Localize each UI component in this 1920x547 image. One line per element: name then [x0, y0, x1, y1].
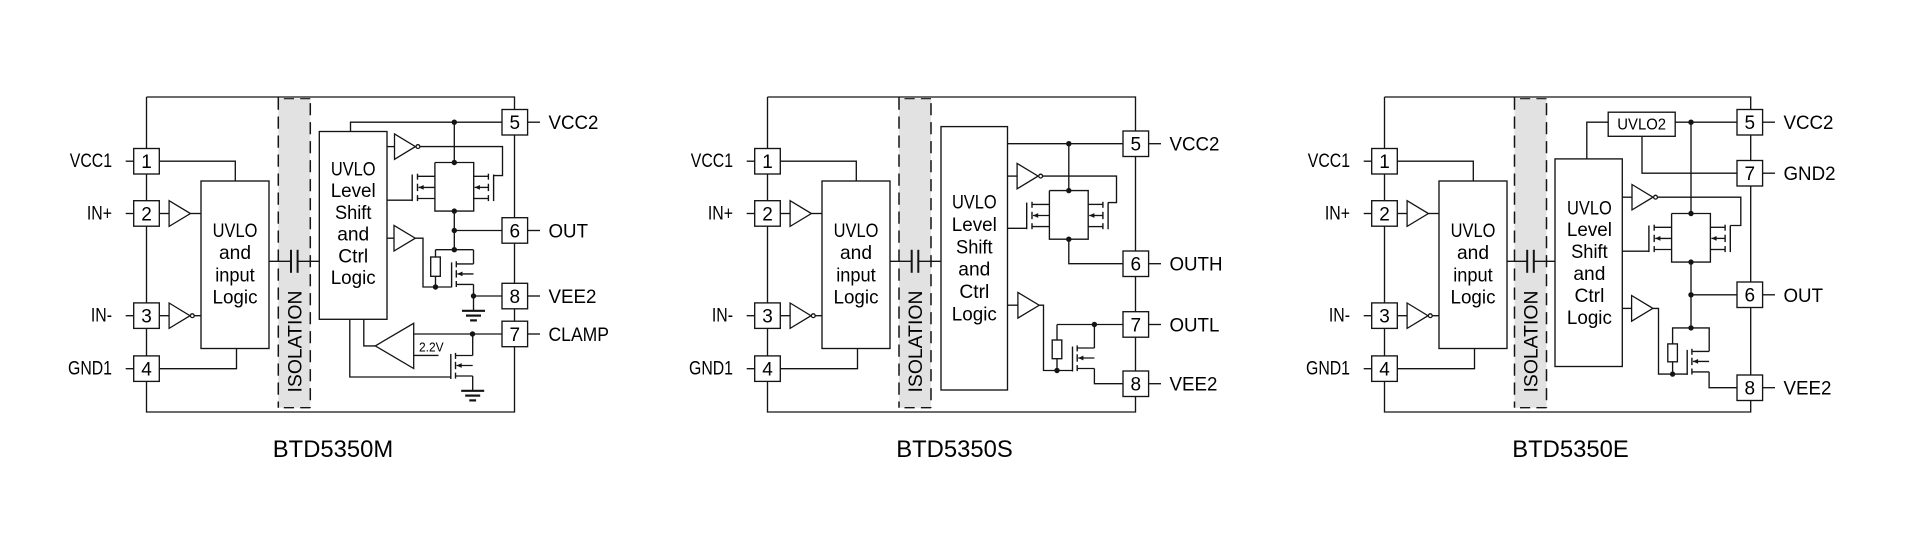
pin 1 label VCC1: [1308, 151, 1350, 172]
svg-text:and: and: [1457, 243, 1489, 264]
isolation capacitor C2: [890, 250, 941, 273]
output MOS pair Q8 Q9: [1649, 211, 1730, 265]
pin 5 label VCC2: [1170, 135, 1220, 156]
svg-text:and: and: [958, 260, 990, 281]
pin 2 label IN+: [708, 203, 733, 224]
inverter driving high-side gate: [1622, 185, 1657, 210]
svg-text:UVLO: UVLO: [952, 193, 997, 214]
svg-text:1: 1: [141, 152, 152, 173]
wire OUTL node to pin 7: [1057, 322, 1123, 327]
svg-text:3: 3: [141, 307, 152, 328]
svg-text:and: and: [219, 243, 251, 264]
svg-text:6: 6: [1131, 255, 1142, 276]
low-side transistor Q7: [1073, 325, 1124, 384]
svg-text:input: input: [836, 265, 876, 286]
svg-text:8: 8: [1745, 379, 1756, 400]
wire level-shift block to low-side gate: [1008, 227, 1027, 229]
svg-text:3: 3: [762, 307, 773, 328]
pin 4 box: [126, 356, 160, 382]
svg-text:2.2V: 2.2V: [419, 340, 444, 355]
svg-text:and: and: [337, 225, 369, 246]
pin 6 label OUT: [1784, 286, 1824, 307]
svg-text:Level: Level: [1567, 220, 1612, 241]
node VCC2 junction: [452, 120, 457, 163]
node pulldown junction: [1688, 295, 1693, 331]
svg-text:4: 4: [762, 360, 773, 381]
UVLO Level Shift and Ctrl Logic block: [941, 127, 1008, 390]
resistor R3: [1668, 328, 1691, 377]
node pulldown rail: [436, 247, 474, 252]
pin 1 box: [126, 149, 160, 175]
pin 4 label GND1: [1306, 359, 1350, 380]
UVLO Level Shift and Ctrl Logic block: [1555, 159, 1622, 367]
input buffer at pin 2: [780, 201, 822, 227]
pin 3 box: [126, 303, 160, 329]
UVLO and input Logic block: [201, 181, 269, 349]
svg-text:7: 7: [1745, 164, 1756, 185]
UVLO and input Logic block: [1439, 181, 1507, 349]
pin 3 box: [747, 303, 781, 329]
pin 5 box: [1123, 131, 1161, 157]
svg-text:UVLO2: UVLO2: [1617, 117, 1666, 134]
svg-text:2: 2: [141, 204, 152, 225]
pin 5 label VCC2: [1784, 113, 1834, 134]
inverter driving high-side gate: [387, 134, 420, 159]
pin 8 label VEE2: [549, 287, 597, 308]
input inverter at pin 3: [159, 303, 201, 328]
svg-text:Logic: Logic: [1451, 288, 1496, 309]
svg-text:Ctrl: Ctrl: [959, 282, 989, 303]
pin 2 label IN+: [1325, 203, 1350, 224]
svg-text:5: 5: [1131, 135, 1142, 156]
pin 8 label VEE2: [1784, 379, 1832, 400]
pin 2 label IN+: [87, 203, 112, 224]
svg-text:4: 4: [1379, 360, 1390, 381]
svg-text:8: 8: [1131, 375, 1142, 396]
node VCC2 junction: [1688, 120, 1693, 214]
buffer driving pulldown: [387, 225, 452, 287]
svg-text:ISOLATION: ISOLATION: [1522, 291, 1543, 393]
svg-text:ISOLATION: ISOLATION: [906, 291, 927, 393]
pin 1 label VCC1: [70, 151, 112, 172]
wire UVLO2 to ctrl block: [1587, 122, 1608, 159]
wire comparator input to pin 7 CLAMP: [414, 331, 502, 336]
svg-text:VCC1: VCC1: [70, 151, 112, 172]
wire UVLO2 to pin 7 GND2: [1642, 136, 1737, 173]
svg-text:and: and: [840, 243, 872, 264]
pin 4 box: [747, 356, 781, 382]
pin 7 box: [502, 321, 540, 347]
pin 3 label IN-: [712, 306, 733, 327]
wire inverter to high-side gate: [1658, 197, 1741, 225]
pin 3 label IN-: [1329, 306, 1350, 327]
input buffer at pin 2: [159, 201, 201, 227]
svg-text:and: and: [1573, 264, 1605, 285]
svg-text:Ctrl: Ctrl: [1574, 286, 1604, 307]
svg-text:GND1: GND1: [1306, 359, 1350, 380]
svg-text:ISOLATION: ISOLATION: [285, 291, 306, 393]
package outline BTD5350S: [768, 97, 1136, 412]
wire level-shift block to low-side gate: [1622, 250, 1649, 252]
isolation capacitor C3: [1507, 250, 1555, 273]
wire VCC2 rail to pin 5: [1675, 121, 1737, 123]
package outline BTD5350E: [1385, 97, 1751, 412]
svg-text:VCC2: VCC2: [1784, 113, 1834, 134]
wire pin1 to UVLO block top: [780, 161, 856, 181]
clamp transistor Q4: [451, 334, 473, 391]
wire ctrl block to clamp gate: [350, 319, 451, 377]
node VCC2 junction: [1066, 141, 1071, 191]
svg-text:IN-: IN-: [1329, 306, 1350, 327]
svg-text:input: input: [215, 265, 255, 286]
svg-text:UVLO: UVLO: [331, 160, 376, 181]
pin 8 box: [502, 283, 540, 309]
pin 8 box: [1737, 375, 1775, 401]
svg-text:5: 5: [510, 113, 521, 134]
pin 6 label OUT: [549, 222, 589, 243]
ground at clamp: [461, 391, 484, 401]
svg-text:BTD5350E: BTD5350E: [1512, 436, 1629, 463]
svg-text:Level: Level: [952, 215, 997, 236]
pin 2 box: [747, 201, 781, 227]
svg-text:VCC2: VCC2: [1170, 135, 1220, 156]
svg-text:BTD5350S: BTD5350S: [896, 436, 1013, 463]
isolation barrier band: [899, 98, 931, 408]
pin 1 box: [747, 149, 781, 175]
svg-text:OUT: OUT: [1784, 286, 1824, 307]
pin 5 box: [502, 110, 540, 136]
pin 4 label GND1: [68, 359, 112, 380]
svg-text:2: 2: [1379, 204, 1390, 225]
svg-text:Ctrl: Ctrl: [338, 246, 368, 267]
svg-text:VCC1: VCC1: [691, 151, 733, 172]
pin 5 label VCC2: [549, 113, 599, 134]
wire output node to pin 6 OUT: [452, 211, 502, 250]
ISOLATION label: [906, 291, 927, 393]
2.2V reference: [414, 340, 444, 356]
pin 5 box: [1737, 110, 1775, 136]
output MOS pair Q1 Q2: [412, 160, 493, 214]
pin 1 box: [1364, 149, 1398, 175]
wire VCC2 rail to pin 5: [1008, 143, 1124, 145]
input buffer at pin 2: [1397, 201, 1439, 227]
isolation capacitor C1: [269, 250, 319, 273]
wire pin4 to UVLO block bottom: [1397, 349, 1474, 369]
pin 8 label VEE2: [1170, 375, 1218, 396]
svg-text:7: 7: [510, 325, 521, 346]
svg-text:IN-: IN-: [91, 306, 112, 327]
svg-text:UVLO: UVLO: [213, 221, 258, 242]
pulldown transistor Q3: [452, 250, 474, 296]
ISOLATION label: [1522, 291, 1543, 393]
pin 6 label OUTH: [1170, 255, 1223, 276]
svg-text:5: 5: [1745, 113, 1756, 134]
node VEE2 junction: [471, 293, 502, 298]
buffer driving low-side output: [1008, 292, 1073, 370]
caption BTD5350M: [273, 436, 393, 463]
wire pin1 to UVLO block top: [1397, 161, 1473, 181]
resistor R2: [1052, 325, 1062, 374]
svg-text:UVLO: UVLO: [1567, 198, 1612, 219]
pin 7 label OUTL: [1170, 316, 1220, 337]
svg-text:UVLO: UVLO: [834, 221, 879, 242]
pin 6 box: [1737, 282, 1775, 308]
pin 1 label VCC1: [691, 151, 733, 172]
package outline BTD5350M: [147, 97, 515, 412]
svg-text:VCC1: VCC1: [1308, 151, 1350, 172]
svg-text:VCC2: VCC2: [549, 113, 599, 134]
pin 3 box: [1364, 303, 1398, 329]
svg-text:VEE2: VEE2: [549, 287, 597, 308]
svg-text:OUT: OUT: [549, 222, 589, 243]
svg-text:1: 1: [1379, 152, 1390, 173]
svg-text:6: 6: [1745, 286, 1756, 307]
isolation barrier band: [278, 98, 310, 408]
wire level-shift block to low-side gate: [387, 199, 412, 201]
output MOS pair Q5 Q6: [1027, 188, 1108, 242]
wire inverter to high-side gate: [420, 147, 503, 176]
svg-text:input: input: [1453, 265, 1493, 286]
pulldown transistor Q10: [1687, 328, 1737, 388]
wire output node to pin 6 OUT: [1688, 262, 1737, 297]
svg-text:UVLO: UVLO: [1451, 221, 1496, 242]
wire inverter to high-side gate: [1043, 176, 1117, 203]
pin 8 box: [1123, 371, 1161, 397]
pin 7 box: [1737, 161, 1775, 187]
clamp comparator 2.2V: [364, 319, 414, 368]
svg-text:OUTH: OUTH: [1170, 255, 1223, 276]
svg-text:Level: Level: [331, 181, 376, 202]
caption BTD5350E: [1512, 436, 1629, 463]
buffer driving pulldown: [1622, 296, 1687, 375]
ISOLATION label: [285, 291, 306, 393]
input inverter at pin 3: [1397, 303, 1439, 328]
svg-text:GND1: GND1: [68, 359, 112, 380]
svg-text:IN+: IN+: [1325, 203, 1350, 224]
pin 7 box: [1123, 312, 1161, 338]
svg-text:2: 2: [762, 204, 773, 225]
resistor R1: [431, 250, 441, 290]
svg-text:Logic: Logic: [952, 305, 997, 326]
UVLO Level Shift and Ctrl Logic block: [319, 132, 387, 320]
svg-text:OUTL: OUTL: [1170, 316, 1220, 337]
svg-text:4: 4: [141, 360, 152, 381]
svg-text:1: 1: [762, 152, 773, 173]
UVLO and input Logic block: [822, 181, 890, 349]
svg-text:IN+: IN+: [87, 203, 112, 224]
pin 4 box: [1364, 356, 1398, 382]
isolation barrier band: [1515, 98, 1547, 408]
svg-text:Shift: Shift: [1571, 242, 1608, 263]
svg-text:Shift: Shift: [956, 237, 993, 258]
svg-text:CLAMP: CLAMP: [549, 325, 610, 346]
caption BTD5350S: [896, 436, 1013, 463]
UVLO2 block: [1608, 112, 1675, 136]
svg-text:Logic: Logic: [331, 268, 376, 289]
svg-text:VEE2: VEE2: [1170, 375, 1218, 396]
pin 4 label GND1: [689, 359, 733, 380]
svg-text:Shift: Shift: [335, 203, 372, 224]
svg-text:7: 7: [1131, 315, 1142, 336]
pin 3 label IN-: [91, 306, 112, 327]
svg-text:GND1: GND1: [689, 359, 733, 380]
pin 7 label GND2: [1784, 164, 1836, 185]
wire output node to pin 6 OUTH: [1069, 239, 1123, 264]
input inverter at pin 3: [780, 303, 822, 328]
svg-text:3: 3: [1379, 307, 1390, 328]
svg-text:IN+: IN+: [708, 203, 733, 224]
wire pin4 to UVLO block bottom: [780, 349, 857, 369]
svg-text:Logic: Logic: [213, 288, 258, 309]
svg-text:VEE2: VEE2: [1784, 379, 1832, 400]
ground at VEE2: [462, 296, 485, 320]
svg-text:Logic: Logic: [834, 288, 879, 309]
svg-text:BTD5350M: BTD5350M: [273, 436, 393, 463]
pin 2 box: [1364, 201, 1398, 227]
pin 2 box: [126, 201, 160, 227]
svg-text:Logic: Logic: [1567, 308, 1612, 329]
svg-text:8: 8: [510, 287, 521, 308]
pin 6 box: [1123, 251, 1161, 277]
wire VCC2 rail to pin 5: [351, 122, 503, 131]
pin 6 box: [502, 218, 540, 244]
wire pin4 to UVLO block bottom: [159, 349, 236, 369]
svg-text:GND2: GND2: [1784, 164, 1836, 185]
inverter driving high-side gate: [1008, 163, 1043, 188]
svg-text:6: 6: [510, 221, 521, 242]
wire pin1 to UVLO block top: [159, 161, 235, 181]
svg-text:IN-: IN-: [712, 306, 733, 327]
pin 7 label CLAMP: [549, 325, 610, 346]
